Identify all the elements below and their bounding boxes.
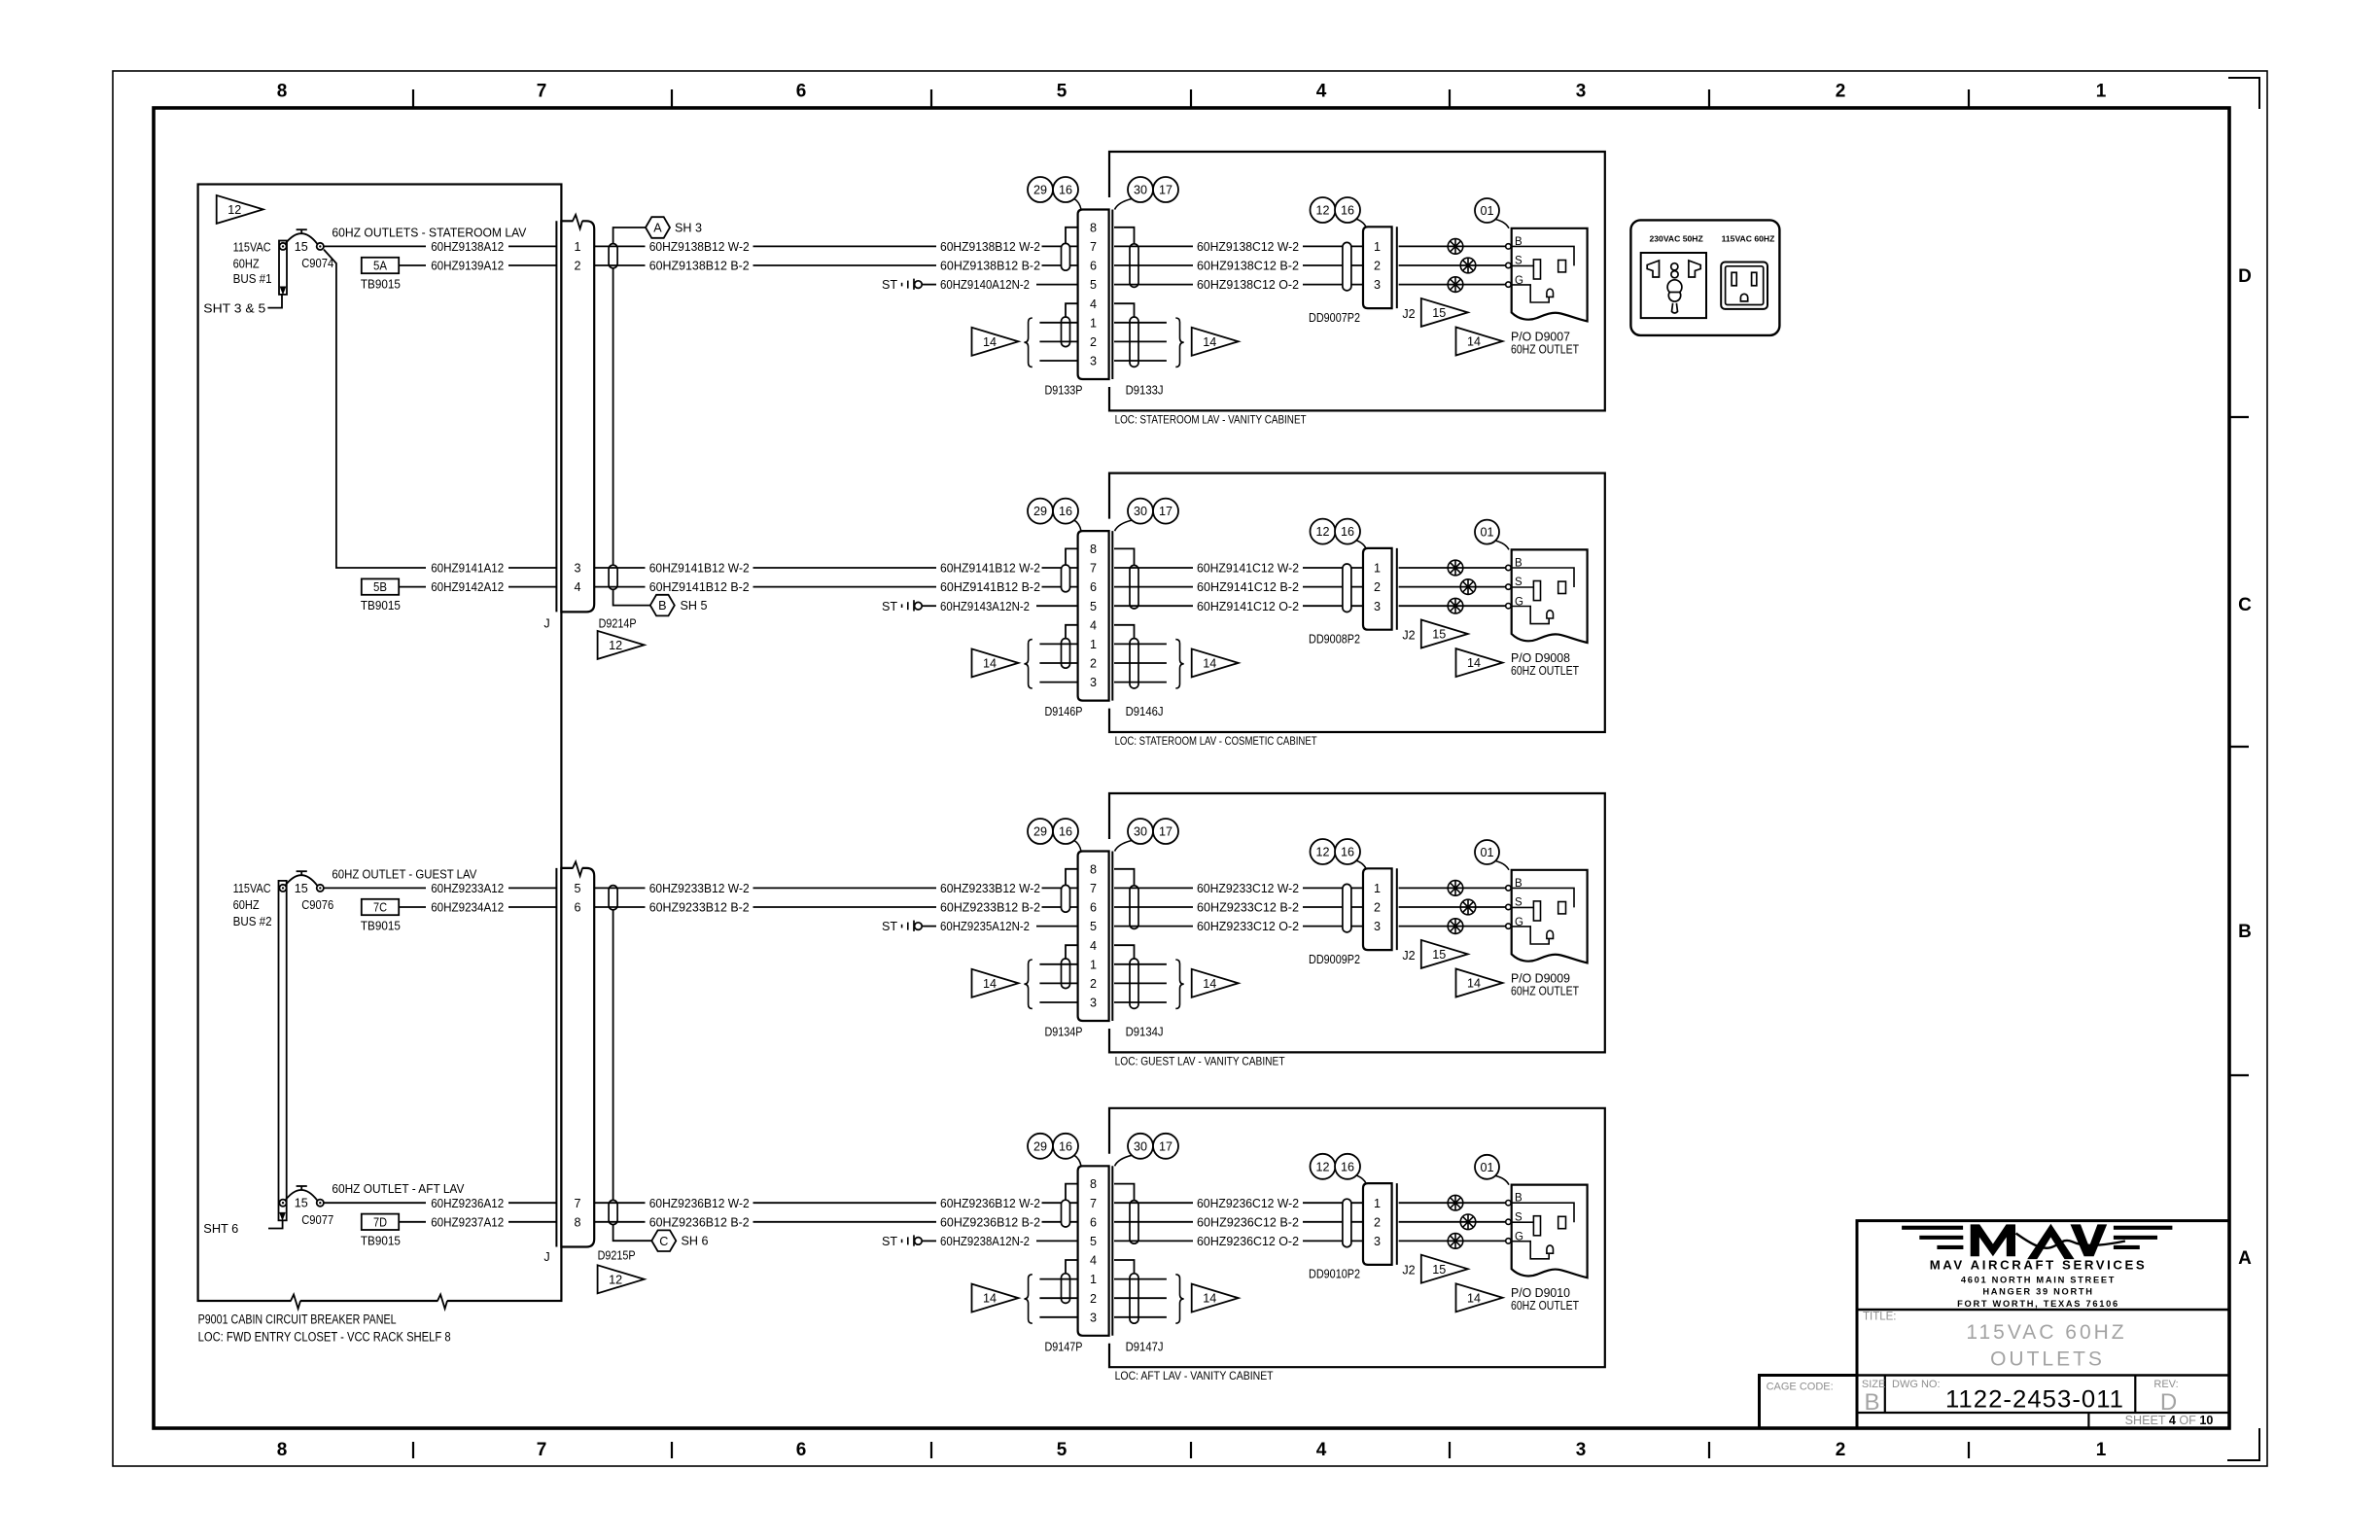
svg-text:4601 NORTH MAIN STREET: 4601 NORTH MAIN STREET — [1961, 1275, 2116, 1284]
jumper pin 8 to shield D9146P — [1066, 548, 1078, 565]
svg-text:01: 01 — [1480, 846, 1493, 859]
rev cell D — [2153, 1379, 2178, 1416]
svg-text:14: 14 — [983, 1292, 997, 1306]
wire 60HZ9234A12 fuse to J pin 6 — [431, 901, 556, 915]
svg-text:LOC: FWD ENTRY CLOSET - VCC RA: LOC: FWD ENTRY CLOSET - VCC RACK SHELF 8 — [198, 1329, 451, 1345]
shield capsule at J connector — [609, 565, 617, 589]
svg-text:3: 3 — [1576, 1440, 1587, 1460]
svg-text:SHEET 4 OF 10: SHEET 4 OF 10 — [2125, 1414, 2214, 1427]
svg-text:C9077: C9077 — [301, 1213, 333, 1227]
svg-text:60HZ9141B12 B-2: 60HZ9141B12 B-2 — [649, 580, 750, 594]
svg-text:60HZ OUTLET: 60HZ OUTLET — [1511, 984, 1579, 997]
svg-text:12: 12 — [609, 639, 622, 652]
svg-text:D9133J: D9133J — [1126, 384, 1164, 398]
svg-text:3: 3 — [1576, 82, 1587, 102]
svg-text:29: 29 — [1033, 1139, 1047, 1153]
svg-text:TITLE:: TITLE: — [1863, 1312, 1897, 1323]
svg-text:TB9015: TB9015 — [361, 1234, 401, 1247]
svg-text:3: 3 — [1374, 278, 1381, 292]
svg-text:2: 2 — [1090, 977, 1097, 991]
svg-text:8: 8 — [574, 1215, 580, 1229]
connector J / D9214P (panel disconnect rows 1-2) — [556, 221, 594, 612]
connector J2 receptacle — [1397, 1183, 1416, 1277]
shield capsule at J connector — [609, 1200, 617, 1224]
svg-text:D9147P: D9147P — [1045, 1340, 1083, 1353]
svg-text:LOC: STATEROOM LAV - COSMETIC: LOC: STATEROOM LAV - COSMETIC CABINET — [1115, 734, 1317, 748]
svg-text:60HZ OUTLET: 60HZ OUTLET — [1511, 664, 1579, 678]
svg-text:5: 5 — [1090, 600, 1097, 613]
flag 14 at outlet — [1456, 969, 1503, 997]
fuse 5B TB9015 — [361, 578, 426, 612]
svg-text:16: 16 — [1341, 525, 1354, 539]
zone ticks bottom edge — [413, 1442, 1969, 1458]
svg-text:6: 6 — [1090, 580, 1097, 594]
flag 15 at J2 — [1421, 1255, 1468, 1283]
svg-text:16: 16 — [1059, 184, 1072, 197]
svg-text:4: 4 — [1316, 1440, 1327, 1460]
svg-text:3: 3 — [1374, 600, 1381, 613]
wire J2-3 to outlet G with splice — [1399, 1234, 1512, 1249]
svg-text:60HZ9138B12 W-2: 60HZ9138B12 W-2 — [649, 240, 750, 254]
svg-text:14: 14 — [1467, 977, 1481, 991]
svg-text:29: 29 — [1033, 184, 1047, 197]
break symbol on connector D9215P top — [573, 866, 581, 870]
title text 115VAC 60HZ OUTLETS — [1863, 1312, 2127, 1371]
connector J2 receptacle — [1397, 548, 1416, 643]
svg-text:60HZ9233C12 B-2: 60HZ9233C12 B-2 — [1197, 901, 1299, 915]
connector DD9007P2 — [1309, 227, 1392, 325]
callout circle 01 at outlet — [1475, 840, 1509, 870]
svg-text:8: 8 — [1090, 542, 1097, 556]
jumper pin 4 to shield D9147J — [1114, 1260, 1135, 1274]
wire 60HZ9142A12 fuse to J pin 4 — [431, 580, 556, 594]
svg-text:1: 1 — [574, 240, 580, 254]
spare wires pins 1-3 jack side with brace and flag 14 — [1114, 1275, 1239, 1323]
svg-text:7: 7 — [574, 1197, 580, 1210]
svg-text:60HZ OUTLET - GUEST LAV: 60HZ OUTLET - GUEST LAV — [332, 867, 477, 881]
svg-text:15: 15 — [295, 1197, 308, 1210]
svg-text:BUS #1: BUS #1 — [233, 272, 272, 286]
circuit breaker C9076 15A — [279, 871, 333, 912]
svg-text:8: 8 — [1090, 862, 1097, 876]
pin numbers D9146P — [1090, 542, 1097, 689]
svg-text:DD9007P2: DD9007P2 — [1309, 311, 1360, 325]
connector D9146J — [1111, 531, 1113, 701]
svg-text:2: 2 — [1374, 901, 1381, 915]
shield capsule plug side pins 7-6 — [1062, 565, 1070, 592]
svg-text:B: B — [658, 599, 666, 612]
svg-text:6: 6 — [1090, 260, 1097, 273]
svg-text:60HZ9138B12 B-2: 60HZ9138B12 B-2 — [940, 260, 1040, 273]
svg-text:5: 5 — [1057, 82, 1067, 102]
svg-text:C9076: C9076 — [301, 898, 333, 912]
connector J2 receptacle — [1397, 227, 1416, 321]
svg-text:16: 16 — [1341, 846, 1354, 859]
shield capsule plug side pins 1-2 — [1062, 639, 1070, 669]
jumper pin 8 to shield D9147J — [1114, 1184, 1135, 1201]
callout circles 12 16 at DD9008P2 — [1311, 519, 1367, 548]
wire J2-1 to outlet B with splice — [1399, 881, 1512, 896]
svg-text:MAV AIRCRAFT SERVICES: MAV AIRCRAFT SERVICES — [1930, 1257, 2148, 1272]
svg-text:1: 1 — [2096, 1440, 2107, 1460]
svg-text:D9146P: D9146P — [1045, 705, 1083, 718]
callout circles 30 17 at D9147J — [1115, 1134, 1179, 1167]
outlet P/O D9009 60HZ OUTLET — [1511, 870, 1588, 998]
svg-text:A: A — [2238, 1248, 2252, 1269]
jumper pin 8 to shield D9134P — [1066, 869, 1078, 886]
wire J2-1 to outlet B with splice — [1399, 560, 1512, 576]
svg-text:12: 12 — [1315, 846, 1329, 859]
shield wire 60HZ9140A12N-2 with ST termination — [882, 278, 1078, 292]
jumper pin 4 to shield D9134P — [1066, 945, 1078, 959]
jumper pin 4 to shield D9146J — [1114, 625, 1135, 639]
svg-text:1: 1 — [1374, 562, 1381, 576]
callout circles 29 16 at D9134P — [1028, 819, 1081, 852]
svg-text:7: 7 — [537, 1440, 547, 1460]
svg-text:7C: 7C — [373, 901, 387, 915]
jumper pin 8 to shield D9146J — [1114, 548, 1135, 565]
svg-text:OUTLETS: OUTLETS — [1990, 1348, 2105, 1371]
connector D9146P — [1078, 531, 1109, 701]
svg-text:115VAC: 115VAC — [233, 882, 271, 895]
jumper pin 4 to shield D9133J — [1114, 303, 1135, 317]
connector D9133J — [1111, 210, 1113, 380]
svg-text:15: 15 — [1432, 306, 1446, 320]
jumper pin 4 to shield D9134J — [1114, 945, 1135, 959]
flag 12 at D9214P — [598, 631, 645, 659]
svg-text:60HZ9233C12 W-2: 60HZ9233C12 W-2 — [1197, 882, 1299, 895]
svg-text:2: 2 — [574, 260, 580, 273]
svg-text:60HZ9237A12: 60HZ9237A12 — [431, 1215, 504, 1229]
flag 15 at J2 — [1421, 620, 1468, 648]
shield capsule at J connector — [609, 244, 617, 268]
svg-text:3: 3 — [1090, 676, 1097, 689]
callout circles 30 17 at D9134J — [1115, 819, 1179, 852]
svg-text:P/O D9009: P/O D9009 — [1511, 971, 1570, 985]
connector DD9008P2 — [1309, 548, 1392, 647]
svg-text:1: 1 — [1090, 316, 1097, 330]
svg-text:J2: J2 — [1402, 629, 1415, 643]
svg-text:6: 6 — [796, 1440, 807, 1460]
svg-text:7: 7 — [1090, 562, 1097, 576]
115VAC 60HZ duplex outlet face — [1721, 262, 1767, 309]
break symbol on panel bottom edge left — [291, 1299, 299, 1303]
svg-text:D9215P: D9215P — [598, 1249, 636, 1263]
svg-text:5: 5 — [1090, 920, 1097, 933]
equipment box LOC: STATEROOM LAV - COSMETIC CABINET — [1109, 473, 1605, 748]
svg-text:HANGER 39 NORTH: HANGER 39 NORTH — [1982, 1287, 2093, 1297]
svg-text:60HZ: 60HZ — [233, 898, 260, 912]
svg-text:5: 5 — [1090, 278, 1097, 292]
wire J2-1 to outlet B with splice — [1399, 1195, 1512, 1210]
svg-text:6: 6 — [1090, 901, 1097, 915]
svg-text:TB9015: TB9015 — [361, 278, 401, 292]
svg-text:D9214P: D9214P — [599, 617, 637, 631]
svg-text:14: 14 — [1203, 335, 1216, 349]
wire 60HZ9236B12 B-2 — [594, 1215, 1077, 1229]
svg-text:B: B — [1864, 1389, 1879, 1416]
callout circles 12 16 at DD9007P2 — [1311, 197, 1367, 227]
svg-text:17: 17 — [1159, 1139, 1172, 1153]
svg-text:A: A — [653, 222, 662, 235]
inner border frame — [154, 108, 2229, 1428]
svg-text:5: 5 — [1090, 1235, 1097, 1248]
connector D9147P — [1078, 1166, 1109, 1336]
zone numbers bottom edge — [277, 1440, 2107, 1460]
wire 60HZ9139A12 fuse to J pin 2 — [431, 260, 556, 273]
off sheet hexagon C SH 6 — [651, 1230, 708, 1251]
callout circle 01 at outlet — [1475, 520, 1509, 550]
fuse 7C TB9015 — [361, 899, 426, 933]
callout circles 30 17 at D9146J — [1115, 499, 1179, 532]
shield capsule jack side pins 7-6-5 — [1130, 565, 1138, 609]
svg-text:2: 2 — [1836, 82, 1846, 102]
bus bar 115VAC 60HZ BUS #2 — [233, 881, 287, 1221]
connector DD9009P2 — [1309, 868, 1392, 966]
svg-text:2: 2 — [1374, 580, 1381, 594]
svg-text:115VAC 60HZ: 115VAC 60HZ — [1966, 1321, 2126, 1344]
MAV logo — [1902, 1224, 2172, 1309]
svg-text:115VAC 60HZ: 115VAC 60HZ — [1722, 234, 1775, 244]
shield capsule plug side pins 7-6 — [1062, 885, 1070, 912]
svg-text:14: 14 — [1467, 335, 1481, 349]
svg-text:60HZ9141C12 W-2: 60HZ9141C12 W-2 — [1197, 562, 1299, 576]
shield capsule jack side pins 1-2-3 — [1130, 639, 1138, 688]
shield capsule jack side pins 7-6-5 — [1130, 244, 1138, 288]
callout circles 29 16 at D9133P — [1028, 177, 1081, 210]
svg-text:15: 15 — [1432, 948, 1446, 962]
svg-text:D: D — [2238, 266, 2252, 287]
svg-text:DD9009P2: DD9009P2 — [1309, 953, 1360, 966]
svg-text:ST: ST — [882, 1235, 897, 1248]
svg-text:1: 1 — [1374, 1197, 1381, 1210]
svg-text:6: 6 — [574, 901, 580, 915]
svg-text:5B: 5B — [373, 580, 387, 594]
wire 60HZ9233B12 W-2 — [594, 882, 1077, 895]
shield capsule jack side pins 1-2-3 — [1130, 1274, 1138, 1323]
callout circles 12 16 at DD9010P2 — [1311, 1154, 1367, 1183]
svg-text:J2: J2 — [1402, 1264, 1415, 1277]
svg-text:LOC: AFT LAV - VANITY CABINET: LOC: AFT LAV - VANITY CABINET — [1115, 1369, 1274, 1382]
svg-text:TB9015: TB9015 — [361, 599, 401, 612]
pin numbers D9133P — [1090, 221, 1097, 367]
svg-text:D9147J: D9147J — [1126, 1340, 1164, 1353]
svg-text:4: 4 — [574, 580, 580, 594]
svg-text:7: 7 — [537, 82, 547, 102]
svg-text:ST: ST — [882, 600, 897, 613]
svg-text:12: 12 — [227, 203, 241, 217]
svg-text:SH 6: SH 6 — [682, 1235, 709, 1248]
svg-text:C9074: C9074 — [301, 257, 333, 270]
wire 60HZ9141B12 B-2 — [594, 580, 1077, 594]
svg-text:29: 29 — [1033, 825, 1047, 839]
svg-text:60HZ9138B12 B-2: 60HZ9138B12 B-2 — [649, 260, 750, 273]
off sheet reference SHT 6 — [203, 1221, 282, 1236]
svg-text:5: 5 — [574, 882, 580, 895]
callout circle 01 at outlet — [1475, 198, 1509, 228]
svg-text:C: C — [659, 1235, 668, 1248]
pin numbers D9147P — [1090, 1177, 1097, 1324]
svg-text:7D: 7D — [373, 1215, 387, 1229]
svg-text:J: J — [543, 617, 549, 631]
svg-text:60HZ9141C12 O-2: 60HZ9141C12 O-2 — [1197, 600, 1299, 613]
spare wires pins 1-3 jack side with brace and flag 14 — [1114, 640, 1239, 688]
svg-text:115VAC: 115VAC — [233, 240, 271, 254]
shield capsule plug side pins 1-2 — [1062, 317, 1070, 347]
svg-text:60HZ9236B12 B-2: 60HZ9236B12 B-2 — [649, 1215, 750, 1229]
spare wires pins 1-3 plug side with brace and flag 14 — [972, 960, 1078, 1008]
svg-text:17: 17 — [1159, 505, 1172, 518]
svg-text:J2: J2 — [1402, 949, 1415, 962]
svg-text:60HZ OUTLET: 60HZ OUTLET — [1511, 342, 1579, 356]
svg-text:14: 14 — [1467, 1291, 1481, 1305]
jumper pin 8 to shield D9147P — [1066, 1184, 1078, 1201]
shield capsule at DD9007P2 — [1343, 242, 1351, 291]
svg-text:DD9008P2: DD9008P2 — [1309, 633, 1360, 647]
svg-text:29: 29 — [1033, 505, 1047, 518]
wire 60HZ9233A12 breaker to J pin 5 — [324, 882, 557, 895]
wire 60HZ9141B12 W-2 — [594, 562, 1077, 576]
svg-text:8: 8 — [277, 1440, 288, 1460]
jumper pin 4 to shield D9133P — [1066, 303, 1078, 317]
svg-text:2: 2 — [1090, 657, 1097, 671]
svg-text:D9134J: D9134J — [1126, 1026, 1164, 1039]
svg-text:4: 4 — [1090, 1254, 1097, 1268]
svg-text:60HZ9236B12 B-2: 60HZ9236B12 B-2 — [940, 1215, 1040, 1229]
svg-text:16: 16 — [1059, 505, 1072, 518]
svg-text:15: 15 — [295, 882, 308, 895]
svg-text:J: J — [543, 1250, 549, 1264]
svg-text:5: 5 — [1057, 1440, 1067, 1460]
svg-text:16: 16 — [1059, 825, 1072, 839]
shield capsule plug side pins 1-2 — [1062, 959, 1070, 989]
svg-text:60HZ9235A12N-2: 60HZ9235A12N-2 — [940, 920, 1030, 933]
equipment box LOC: AFT LAV - VANITY CABINET — [1109, 1108, 1605, 1382]
svg-text:60HZ9233B12 W-2: 60HZ9233B12 W-2 — [940, 882, 1040, 895]
svg-text:8: 8 — [1090, 221, 1097, 234]
svg-text:D9133P: D9133P — [1045, 384, 1083, 398]
svg-text:60HZ9141B12 W-2: 60HZ9141B12 W-2 — [649, 562, 750, 576]
off sheet reference SHT 3 & 5 — [203, 295, 282, 316]
svg-text:8: 8 — [1090, 1177, 1097, 1191]
shield wire 60HZ9143A12N-2 with ST termination — [882, 600, 1078, 613]
wire 60HZ9141C12 B-2 — [1114, 580, 1363, 594]
off sheet hexagon A SH 3 — [646, 217, 702, 238]
svg-text:4: 4 — [1090, 297, 1097, 311]
svg-text:60HZ9233B12 B-2: 60HZ9233B12 B-2 — [649, 901, 750, 915]
connector J / D9215P (panel disconnect rows 3-4) — [556, 868, 594, 1247]
wire J2-3 to outlet G with splice — [1399, 277, 1512, 293]
wire 60HZ9141C12 O-2 — [1114, 600, 1363, 613]
jumper pin 8 to shield D9133P — [1066, 227, 1078, 244]
corner trim mark top right — [2228, 78, 2259, 109]
wire 60HZ9236C12 B-2 — [1114, 1215, 1363, 1229]
230VAC 50HZ universal outlet face — [1641, 253, 1706, 318]
spare wires pins 1-3 plug side with brace and flag 14 — [972, 318, 1078, 367]
jumper pin 8 to shield D9134J — [1114, 869, 1135, 886]
svg-text:01: 01 — [1480, 1161, 1493, 1174]
svg-text:16: 16 — [1341, 204, 1354, 218]
svg-text:FORT WORTH, TEXAS 76106: FORT WORTH, TEXAS 76106 — [1957, 1299, 2119, 1309]
shield wire 60HZ9235A12N-2 with ST termination — [882, 920, 1078, 933]
connector D9134P — [1078, 852, 1109, 1022]
shield capsule plug side pins 1-2 — [1062, 1274, 1070, 1304]
svg-text:16: 16 — [1341, 1160, 1354, 1173]
svg-text:C: C — [2238, 595, 2252, 615]
zone letters right edge — [2238, 266, 2252, 1269]
zone ticks right edge — [2229, 417, 2249, 1075]
svg-text:230VAC 50HZ: 230VAC 50HZ — [1650, 234, 1703, 244]
shield drain wire rows 1-2 to off sheet A and B — [613, 227, 650, 606]
svg-text:60HZ9234A12: 60HZ9234A12 — [431, 901, 504, 915]
wire J2-3 to outlet G with splice — [1399, 598, 1512, 613]
shield capsule plug side pins 7-6 — [1062, 1200, 1070, 1227]
wire 60HZ9237A12 fuse to J pin 8 — [431, 1215, 556, 1229]
svg-text:60HZ9141B12 W-2: 60HZ9141B12 W-2 — [940, 562, 1040, 576]
wire 60HZ9141C12 W-2 — [1114, 562, 1363, 576]
svg-text:1: 1 — [1374, 240, 1381, 254]
svg-text:3: 3 — [1090, 997, 1097, 1010]
spare wires pins 1-3 plug side with brace and flag 14 — [972, 640, 1078, 688]
callout circles 30 17 at D9133J — [1115, 177, 1179, 210]
outlet P/O D9008 60HZ OUTLET — [1511, 549, 1588, 678]
flag 15 at J2 — [1421, 940, 1468, 968]
svg-text:60HZ9236A12: 60HZ9236A12 — [431, 1197, 504, 1210]
shield capsule at DD9010P2 — [1343, 1199, 1351, 1247]
wire 60HZ9138B12 B-2 — [594, 260, 1077, 273]
svg-text:60HZ9236C12 W-2: 60HZ9236C12 W-2 — [1197, 1197, 1299, 1210]
zone numbers top edge — [277, 82, 2107, 102]
svg-text:60HZ9238A12N-2: 60HZ9238A12N-2 — [940, 1235, 1030, 1248]
svg-text:30: 30 — [1134, 1139, 1147, 1153]
wire J2-2 to outlet S with splice — [1399, 899, 1512, 915]
svg-text:3: 3 — [1374, 1235, 1381, 1248]
svg-text:60HZ9233B12 B-2: 60HZ9233B12 B-2 — [940, 901, 1040, 915]
svg-text:60HZ OUTLET: 60HZ OUTLET — [1511, 1299, 1579, 1312]
svg-text:6: 6 — [1090, 1215, 1097, 1229]
svg-text:17: 17 — [1159, 184, 1172, 197]
callout circles 29 16 at D9147P — [1028, 1134, 1081, 1167]
svg-text:12: 12 — [1315, 204, 1329, 218]
svg-text:60HZ9138B12 W-2: 60HZ9138B12 W-2 — [940, 240, 1040, 254]
wire J2-2 to outlet S with splice — [1399, 258, 1512, 273]
svg-text:30: 30 — [1134, 505, 1147, 518]
svg-text:SHT 3 & 5: SHT 3 & 5 — [203, 302, 265, 316]
jumper pin 8 to shield D9133J — [1114, 227, 1135, 244]
svg-text:60HZ9236B12 W-2: 60HZ9236B12 W-2 — [649, 1197, 750, 1210]
flag 14 at outlet — [1456, 648, 1503, 677]
svg-text:60HZ9141A12: 60HZ9141A12 — [431, 562, 504, 576]
outlet P/O D9007 60HZ OUTLET — [1511, 228, 1588, 356]
svg-text:16: 16 — [1059, 1139, 1072, 1153]
connector D9133P — [1078, 210, 1109, 380]
svg-text:7: 7 — [1090, 240, 1097, 254]
svg-text:60HZ: 60HZ — [233, 257, 260, 270]
svg-text:1: 1 — [1090, 958, 1097, 971]
svg-text:CAGE CODE:: CAGE CODE: — [1767, 1381, 1834, 1392]
svg-text:60HZ9236C12 O-2: 60HZ9236C12 O-2 — [1197, 1235, 1299, 1248]
wire 60HZ9236C12 O-2 — [1114, 1235, 1363, 1248]
shield capsule jack side pins 1-2-3 — [1130, 959, 1138, 1008]
svg-text:DWG NO:: DWG NO: — [1892, 1379, 1941, 1390]
svg-text:3: 3 — [1374, 920, 1381, 933]
shield capsule at DD9008P2 — [1343, 564, 1351, 612]
shield capsule jack side pins 7-6-5 — [1130, 886, 1138, 929]
jumper pin 4 to shield D9147P — [1066, 1260, 1078, 1274]
connector DD9010P2 — [1309, 1183, 1392, 1281]
svg-text:TB9015: TB9015 — [361, 920, 401, 933]
pin numbers D9134P — [1090, 862, 1097, 1009]
